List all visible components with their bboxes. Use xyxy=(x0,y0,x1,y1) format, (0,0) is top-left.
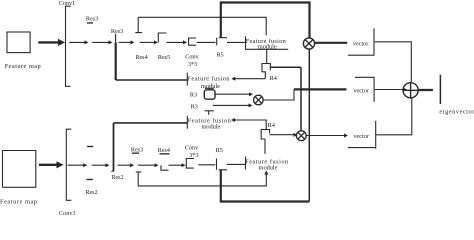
R3 label xyxy=(190,92,197,99)
wire: loop to bottom middle fusion module xyxy=(114,122,188,124)
R5 label (top) xyxy=(216,52,223,59)
wire: adder output xyxy=(418,89,433,91)
wire into fusion module 1 xyxy=(227,41,246,43)
Feature fusion module 1 (top right) xyxy=(246,36,289,49)
svg-text:R4: R4 xyxy=(268,122,275,129)
svg-text:3*3: 3*3 xyxy=(189,152,198,159)
wire: R4' output to multiplier 3 xyxy=(270,134,294,136)
wire: R3 to multiplier 2 xyxy=(215,93,250,95)
wire: vector2 to adder xyxy=(375,89,404,91)
vector 1 label and bracket xyxy=(353,41,368,48)
svg-text:Conv1: Conv1 xyxy=(59,0,76,7)
svg-text:R5: R5 xyxy=(216,52,223,59)
adder (circle-plus) xyxy=(403,83,418,98)
svg-text:Res5: Res5 xyxy=(158,54,170,61)
svg-text:Conv: Conv xyxy=(185,54,199,61)
R4 label (top) xyxy=(270,75,277,82)
Res5 step bracket xyxy=(158,33,166,42)
R4' box (bottom) xyxy=(261,130,269,140)
svg-text:Feature fusion: Feature fusion xyxy=(188,76,231,83)
multiplier 2 (circle-X) xyxy=(254,95,264,105)
Res4 label (top) xyxy=(135,54,147,61)
svg-text:Res2: Res2 xyxy=(85,189,97,196)
wire xyxy=(198,164,215,166)
eigenvector label xyxy=(439,109,474,116)
wire: bottom R3 to multiplier 2 xyxy=(213,104,250,106)
wire xyxy=(118,164,132,166)
svg-text:Feature map: Feature map xyxy=(5,63,41,70)
tee to R3 block xyxy=(205,88,214,90)
wire xyxy=(167,41,185,43)
multiplier 1 (circle-X) xyxy=(303,38,314,49)
wire: skip line into fusion module top xyxy=(138,17,266,35)
Conv 3*3 label (bottom) xyxy=(185,145,199,160)
svg-text:3*3: 3*3 xyxy=(188,61,197,68)
svg-text:module: module xyxy=(259,164,278,171)
svg-text:Res4: Res4 xyxy=(158,147,170,154)
Conv1 bracket (bottom) xyxy=(66,129,71,200)
Conv1 bracket (top) xyxy=(66,6,71,86)
wire: bottom skip line into module4 bottom xyxy=(138,172,266,186)
wire: module to R4' box top (arrow into module) xyxy=(234,120,266,130)
Res4 label with dash (bottom) xyxy=(158,147,170,155)
wire: multiplier3 output to vector3 xyxy=(306,135,344,137)
svg-text:module: module xyxy=(201,124,220,131)
multiplier 3 (circle-X) xyxy=(296,131,306,141)
tee from bottom middle module xyxy=(205,111,214,115)
wire xyxy=(119,41,132,43)
vector 2 label and bracket xyxy=(353,88,368,95)
svg-text:Res3: Res3 xyxy=(131,146,143,153)
vector 3 label and bracket xyxy=(353,133,368,140)
wire: dashed flow segments with arrows (top) xyxy=(69,41,85,43)
wire: thick line to vector2 xyxy=(294,88,347,90)
wire: thick skip from bottom R5 to multiplier 1 xyxy=(221,170,309,202)
svg-text:Conv: Conv xyxy=(185,145,199,152)
wire: R4' box down into module4 xyxy=(264,139,266,154)
svg-text:R3: R3 xyxy=(190,92,197,99)
svg-text:vector: vector xyxy=(353,41,368,48)
bottom middle fusion module xyxy=(186,116,188,129)
hanging tee node (skip tap, top) xyxy=(135,17,142,32)
R4 box (top) xyxy=(262,64,270,79)
R5 stage bar (bottom) xyxy=(217,159,228,170)
wire into fusion module 4 xyxy=(227,163,246,165)
Res2 label (lower) xyxy=(85,189,97,196)
wire: multiplier1 down to bottom thick loop xyxy=(308,49,310,201)
Conv1 label (bottom) xyxy=(59,210,76,217)
wire: multiplier1 output to vector1 xyxy=(315,42,348,44)
output terminal bar xyxy=(439,75,441,104)
wire xyxy=(169,164,183,166)
feature map box (top input) xyxy=(7,32,30,53)
wire xyxy=(92,164,107,166)
svg-text:vector: vector xyxy=(353,133,368,140)
wire: multiplier2 output up to vector2 line xyxy=(263,89,294,100)
Res2 tick wire up to loop (bottom) xyxy=(113,123,115,171)
ellipsis dashes (bottom) xyxy=(86,146,93,180)
svg-text:R4: R4 xyxy=(270,75,277,82)
R3 label (bottom branch) xyxy=(191,103,198,110)
feature map label (top) xyxy=(5,63,41,70)
Conv1 label (top) xyxy=(59,0,76,7)
svg-text:R5: R5 xyxy=(216,147,223,154)
middle fusion module (top) xyxy=(186,73,188,86)
R3 block (rounded square) xyxy=(204,90,215,99)
thick input arrow (top) xyxy=(38,41,59,43)
svg-text:eigenvector: eigenvector xyxy=(439,109,474,116)
svg-text:module: module xyxy=(258,43,277,50)
Res3 label with dash (upper) xyxy=(86,15,98,23)
svg-text:vector: vector xyxy=(353,88,368,95)
wire: R4 output down to multiplier 3 xyxy=(270,67,301,131)
svg-text:Res3: Res3 xyxy=(111,28,123,35)
feature map label (bottom) xyxy=(0,198,37,205)
Res3 tick wire down to loop xyxy=(115,34,117,43)
thick input arrow (bottom) xyxy=(39,164,58,166)
R4 label (bottom) xyxy=(268,122,275,129)
hanging tee node (skip tap, bottom) xyxy=(136,171,142,173)
wire xyxy=(197,41,216,43)
wire xyxy=(140,41,155,43)
Res5 label (top) xyxy=(158,54,170,61)
svg-text:Res3: Res3 xyxy=(86,15,98,22)
svg-text:R3: R3 xyxy=(191,103,198,110)
wire: middle module output to R4 box bottom xyxy=(234,78,265,80)
svg-text:Conv1: Conv1 xyxy=(59,210,76,215)
Res3 label with dash (bottom) xyxy=(131,146,143,154)
feature map box (bottom input) xyxy=(3,151,36,188)
svg-text:Feature map: Feature map xyxy=(0,198,37,205)
wire: dashed flow segments (bottom) xyxy=(68,164,85,166)
Conv 3*3 bracket (bottom) xyxy=(186,159,194,169)
wire xyxy=(92,41,109,43)
Res2 label (at tick) xyxy=(112,175,124,181)
R5 stage bar (top) xyxy=(217,38,227,46)
wire: vector1 to adder top xyxy=(375,42,412,82)
Conv 3*3 label (top) xyxy=(185,54,199,69)
Conv 3*3 bracket (top) xyxy=(189,38,196,45)
wire: loop to middle fusion module xyxy=(116,79,188,81)
wire: module1 down to R4 box xyxy=(266,49,268,63)
R5 label (bottom) xyxy=(216,147,223,154)
wire xyxy=(138,164,156,166)
wire: thick skip from R5 to multiplier xyxy=(221,3,310,38)
svg-text:Res4: Res4 xyxy=(135,54,147,61)
svg-text:Res2: Res2 xyxy=(112,175,124,181)
Res3 label (at tick) xyxy=(111,28,123,35)
Res4 step bracket (bottom, mirrored) xyxy=(161,165,169,170)
Feature fusion module 4 (bottom right) xyxy=(245,157,247,170)
wire: vector3 to adder bottom xyxy=(376,98,412,135)
